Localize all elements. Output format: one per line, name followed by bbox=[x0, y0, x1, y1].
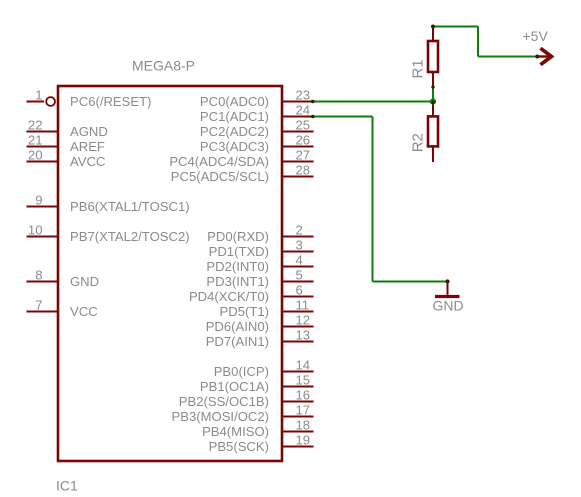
svg-text:PC1(ADC1): PC1(ADC1) bbox=[200, 109, 269, 124]
svg-text:3: 3 bbox=[296, 237, 303, 252]
pin 1 inversion bubble bbox=[46, 97, 55, 106]
svg-text:PB3(MOSI/OC2): PB3(MOSI/OC2) bbox=[172, 409, 270, 424]
svg-text:4: 4 bbox=[296, 252, 303, 267]
svg-text:PB5(SCK): PB5(SCK) bbox=[209, 439, 269, 454]
pin 18 stub (right) bbox=[282, 431, 314, 433]
svg-text:VCC: VCC bbox=[70, 304, 98, 319]
svg-text:18: 18 bbox=[296, 417, 311, 432]
svg-text:13: 13 bbox=[296, 327, 311, 342]
svg-text:22: 22 bbox=[28, 117, 43, 132]
svg-text:5: 5 bbox=[296, 267, 303, 282]
svg-text:AREF: AREF bbox=[70, 139, 105, 154]
svg-text:1: 1 bbox=[35, 87, 42, 102]
svg-text:MEGA8-P: MEGA8-P bbox=[132, 58, 195, 74]
svg-text:14: 14 bbox=[296, 357, 311, 372]
pin 19 stub (right) bbox=[282, 446, 314, 448]
svg-text:PD0(RXD): PD0(RXD) bbox=[207, 229, 269, 244]
svg-text:PD1(TXD): PD1(TXD) bbox=[209, 244, 269, 259]
svg-text:PB2(SS/OC1B): PB2(SS/OC1B) bbox=[179, 394, 269, 409]
svg-text:6: 6 bbox=[296, 282, 303, 297]
pin 10 stub (left) bbox=[27, 236, 59, 238]
svg-text:PC0(ADC0): PC0(ADC0) bbox=[200, 94, 269, 109]
svg-text:AVCC: AVCC bbox=[70, 154, 105, 169]
svg-text:17: 17 bbox=[296, 402, 311, 417]
wire pin23/PC0 to R1-R2 junction bbox=[314, 101, 434, 103]
IC U1 MEGA8-P body bbox=[58, 86, 282, 461]
svg-text:20: 20 bbox=[28, 147, 43, 162]
svg-text:PB0(ICP): PB0(ICP) bbox=[214, 364, 269, 379]
resistor R1 body bbox=[428, 41, 438, 72]
resistor R2 body bbox=[428, 116, 438, 146]
wire R1 bottom lead to junction bbox=[432, 88, 434, 102]
pin 23 stub (right) bbox=[282, 101, 314, 103]
pin 11 stub (right) bbox=[282, 311, 314, 313]
svg-text:7: 7 bbox=[35, 297, 42, 312]
pin 15 stub (right) bbox=[282, 386, 314, 388]
supply +5V arrow shaft bbox=[538, 55, 551, 57]
svg-text:AGND: AGND bbox=[70, 124, 108, 139]
connection dot GND bbox=[445, 279, 449, 283]
svg-text:GND: GND bbox=[433, 298, 464, 314]
svg-text:IC1: IC1 bbox=[56, 477, 78, 493]
pin 9 stub (left) bbox=[27, 206, 59, 208]
svg-text:PD2(INT0): PD2(INT0) bbox=[206, 259, 269, 274]
pin 4 stub (right) bbox=[282, 266, 314, 268]
connection dot +5V arrow bbox=[535, 55, 539, 59]
connection dot R1 top bbox=[431, 25, 435, 29]
svg-text:PD6(AIN0): PD6(AIN0) bbox=[206, 319, 269, 334]
svg-text:9: 9 bbox=[35, 192, 42, 207]
wire pin24/PC1 horizontal bbox=[314, 116, 373, 118]
svg-text:8: 8 bbox=[35, 267, 42, 282]
connection dot pin23 bbox=[311, 100, 315, 104]
wire pin24 net vertical down bbox=[372, 117, 374, 282]
pin 26 stub (right) bbox=[282, 146, 314, 148]
pin 12 stub (right) bbox=[282, 326, 314, 328]
svg-text:15: 15 bbox=[296, 372, 311, 387]
pin 3 stub (right) bbox=[282, 251, 314, 253]
svg-text:PC5(ADC5/SCL): PC5(ADC5/SCL) bbox=[171, 169, 269, 184]
connection dot pin24 bbox=[311, 115, 315, 119]
svg-text:PC2(ADC2): PC2(ADC2) bbox=[200, 124, 269, 139]
svg-text:PC4(ADC4/SDA): PC4(ADC4/SDA) bbox=[169, 154, 269, 169]
pin 8 stub (left) bbox=[27, 281, 59, 283]
svg-text:12: 12 bbox=[296, 312, 311, 327]
svg-text:R2: R2 bbox=[410, 133, 427, 152]
svg-text:+5V: +5V bbox=[523, 28, 549, 44]
svg-text:21: 21 bbox=[28, 132, 43, 147]
svg-text:24: 24 bbox=[296, 102, 311, 117]
svg-text:R1: R1 bbox=[410, 59, 427, 78]
svg-text:11: 11 bbox=[296, 297, 310, 312]
svg-text:23: 23 bbox=[296, 87, 311, 102]
svg-text:2: 2 bbox=[296, 222, 303, 237]
svg-text:10: 10 bbox=[28, 222, 43, 237]
svg-text:PD3(INT1): PD3(INT1) bbox=[206, 274, 269, 289]
svg-text:PB6(XTAL1/TOSC1): PB6(XTAL1/TOSC1) bbox=[70, 199, 190, 214]
wire +5V vertical bbox=[477, 27, 479, 57]
svg-text:19: 19 bbox=[296, 432, 311, 447]
pin 1 stub (left) bbox=[27, 101, 45, 103]
pin 14 stub (right) bbox=[282, 371, 314, 373]
pin 24 stub (right) bbox=[282, 116, 314, 118]
pin 16 stub (right) bbox=[282, 401, 314, 403]
resistor R2 leads bbox=[432, 102, 434, 117]
resistor R1 leads bbox=[432, 27, 434, 42]
svg-text:PB4(MISO): PB4(MISO) bbox=[202, 424, 269, 439]
wire to +5V arrow bbox=[478, 56, 538, 58]
svg-text:PB1(OC1A): PB1(OC1A) bbox=[200, 379, 269, 394]
pin 21 stub (left) bbox=[27, 146, 59, 148]
svg-text:PB7(XTAL2/TOSC2): PB7(XTAL2/TOSC2) bbox=[70, 229, 190, 244]
wire R1 top to +5V corner bbox=[433, 26, 478, 28]
ground GND bar bbox=[435, 295, 460, 298]
svg-text:PC3(ADC3): PC3(ADC3) bbox=[200, 139, 269, 154]
pin 5 stub (right) bbox=[282, 281, 314, 283]
pin 17 stub (right) bbox=[282, 416, 314, 418]
junction node PC0/R1/R2 bbox=[430, 98, 436, 104]
svg-text:25: 25 bbox=[296, 117, 311, 132]
pin 13 stub (right) bbox=[282, 341, 314, 343]
pin 22 stub (left) bbox=[27, 131, 59, 133]
wire pin24 net horizontal to GND bbox=[373, 281, 448, 283]
svg-text:27: 27 bbox=[296, 147, 311, 162]
svg-text:GND: GND bbox=[70, 274, 99, 289]
ground GND stem bbox=[447, 282, 449, 295]
pin 25 stub (right) bbox=[282, 131, 314, 133]
pin 20 stub (left) bbox=[27, 161, 59, 163]
svg-text:26: 26 bbox=[296, 132, 311, 147]
supply +5V arrow chevron bbox=[541, 48, 552, 64]
svg-text:PC6(/RESET): PC6(/RESET) bbox=[70, 94, 151, 109]
svg-text:16: 16 bbox=[296, 387, 311, 402]
pin 2 stub (right) bbox=[282, 236, 314, 238]
svg-text:PD4(XCK/T0): PD4(XCK/T0) bbox=[189, 289, 269, 304]
pin 7 stub (left) bbox=[27, 311, 59, 313]
svg-text:PD7(AIN1): PD7(AIN1) bbox=[206, 334, 269, 349]
pin 27 stub (right) bbox=[282, 161, 314, 163]
svg-text:PD5(T1): PD5(T1) bbox=[220, 304, 269, 319]
pin 6 stub (right) bbox=[282, 296, 314, 298]
connection dot R1 bottom pin end bbox=[431, 85, 434, 88]
svg-text:28: 28 bbox=[296, 162, 311, 177]
pin 28 stub (right) bbox=[282, 176, 314, 178]
